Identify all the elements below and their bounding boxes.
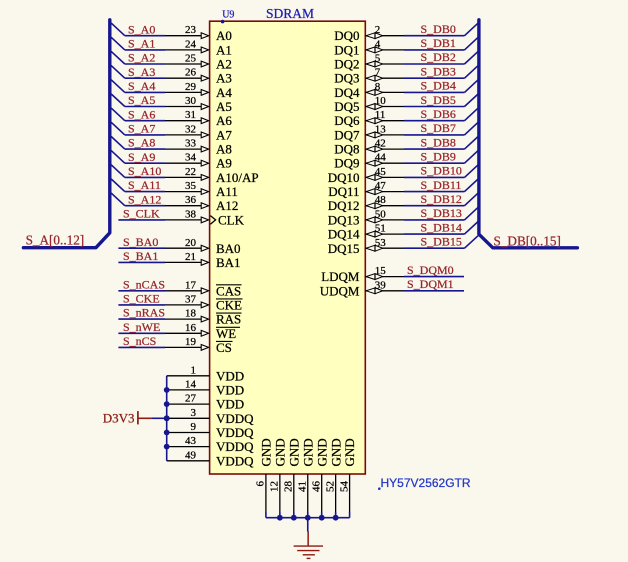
svg-text:39: 39 (375, 279, 387, 291)
svg-text:A2: A2 (216, 57, 232, 72)
svg-text:A10/AP: A10/AP (216, 170, 259, 185)
junction dot GND rail (333, 515, 339, 521)
svg-text:S_DB2: S_DB2 (421, 50, 456, 64)
chip origin dot (221, 20, 225, 24)
svg-text:13: 13 (375, 123, 387, 135)
svg-text:S_nRAS: S_nRAS (123, 306, 165, 320)
svg-text:S_DB14: S_DB14 (421, 220, 462, 234)
svg-text:32: 32 (185, 123, 196, 135)
pin A11 (35) wire + net S_A11 (111, 178, 238, 199)
svg-text:S_BA0: S_BA0 (123, 235, 158, 249)
pin VDDQ (43) wire (167, 435, 254, 454)
pin DQ8 (42) wire + net S_DB8 (334, 135, 478, 156)
svg-text:DQ2: DQ2 (334, 57, 359, 72)
svg-text:10: 10 (375, 95, 387, 107)
svg-text:VDD: VDD (216, 397, 244, 412)
junction dot on VDD rail (164, 430, 170, 436)
svg-text:S_A9: S_A9 (128, 150, 155, 164)
pin LDQM (15) wire + net S_DQM0 (321, 263, 464, 284)
svg-text:42: 42 (375, 138, 386, 150)
svg-text:U9: U9 (222, 10, 234, 21)
pin A0 (23) wire + net S_A0 (111, 22, 232, 43)
svg-text:DQ6: DQ6 (334, 113, 360, 128)
svg-text:GND: GND (342, 438, 357, 466)
svg-text:BA0: BA0 (216, 241, 241, 256)
svg-text:18: 18 (185, 308, 197, 320)
svg-text:S_CLK: S_CLK (123, 207, 160, 221)
pin DQ10 (45) wire + net S_DB10 (328, 164, 478, 185)
svg-text:S_CKE: S_CKE (123, 292, 160, 306)
svg-text:12: 12 (269, 481, 281, 492)
svg-text:S_nCAS: S_nCAS (123, 277, 165, 291)
svg-text:31: 31 (185, 109, 196, 121)
pin GND (54) vertical wire (338, 438, 357, 517)
svg-text:5: 5 (375, 53, 381, 65)
svg-text:28: 28 (283, 481, 295, 493)
svg-text:S_DB9: S_DB9 (421, 149, 456, 163)
svg-text:43: 43 (185, 435, 197, 447)
svg-text:21: 21 (185, 251, 196, 263)
svg-text:A9: A9 (216, 156, 232, 171)
svg-text:DQ0: DQ0 (334, 28, 359, 43)
svg-text:GND: GND (328, 438, 343, 466)
svg-text:S_A1: S_A1 (128, 37, 155, 51)
svg-text:DQ13: DQ13 (328, 212, 360, 227)
svg-text:29: 29 (185, 81, 197, 93)
junction dot on VDD rail (164, 401, 170, 407)
svg-text:DQ10: DQ10 (328, 170, 360, 185)
svg-text:S_DB10: S_DB10 (421, 164, 462, 178)
pin VDD (14) wire (167, 378, 244, 397)
svg-text:DQ14: DQ14 (328, 227, 360, 242)
pin GND (12) vertical wire (269, 438, 288, 517)
svg-text:GND: GND (259, 438, 274, 466)
svg-text:VDDQ: VDDQ (216, 425, 254, 440)
pin A4 (29) wire + net S_A4 (111, 79, 232, 100)
svg-text:WE: WE (216, 326, 236, 341)
ground symbol (294, 531, 323, 558)
svg-text:DQ5: DQ5 (334, 99, 359, 114)
svg-text:S_A2: S_A2 (128, 51, 155, 65)
svg-text:GND: GND (314, 438, 329, 466)
pin CS (19) wire + net S_nCS (118, 334, 232, 355)
svg-text:S_DB1: S_DB1 (421, 36, 456, 50)
svg-text:33: 33 (185, 138, 197, 150)
pin CLK (38) wire + net S_CLK (118, 207, 244, 228)
pin DQ2 (5) wire + net S_DB2 (334, 50, 478, 71)
svg-text:44: 44 (375, 152, 387, 164)
svg-text:HY57V2562GTR: HY57V2562GTR (381, 476, 471, 490)
svg-text:2: 2 (375, 24, 381, 36)
pin BA1 (21) wire + net S_BA1 (118, 249, 240, 270)
svg-text:17: 17 (185, 279, 197, 291)
svg-text:S_DB5: S_DB5 (421, 93, 456, 107)
svg-text:48: 48 (375, 194, 387, 206)
svg-text:51: 51 (375, 223, 386, 235)
svg-text:LDQM: LDQM (321, 269, 360, 284)
svg-text:1: 1 (191, 364, 197, 376)
svg-text:S_DB12: S_DB12 (421, 192, 462, 206)
svg-text:DQ8: DQ8 (334, 142, 359, 157)
svg-text:27: 27 (185, 393, 197, 405)
svg-text:3: 3 (191, 407, 197, 419)
svg-text:SDRAM: SDRAM (266, 6, 314, 21)
svg-text:37: 37 (185, 293, 197, 305)
pin WE (16) wire + net S_nWE (118, 320, 240, 341)
svg-text:CLK: CLK (218, 212, 245, 227)
svg-text:S_A10: S_A10 (128, 164, 161, 178)
pin A7 (32) wire + net S_A7 (111, 122, 232, 143)
svg-text:CAS: CAS (216, 283, 241, 298)
svg-text:A11: A11 (216, 184, 238, 199)
pin GND (6) vertical wire (255, 438, 274, 517)
svg-text:6: 6 (255, 481, 267, 487)
svg-text:DQ4: DQ4 (334, 85, 360, 100)
svg-text:54: 54 (338, 481, 350, 493)
pin DQ12 (48) wire + net S_DB12 (328, 192, 478, 213)
wire VDD/VDDQ vertical connector (166, 376, 168, 461)
svg-text:DQ7: DQ7 (334, 127, 360, 142)
svg-text:A6: A6 (216, 113, 232, 128)
junction dot GND rail (277, 515, 283, 521)
svg-text:DQ1: DQ1 (334, 42, 359, 57)
svg-text:VDDQ: VDDQ (216, 439, 254, 454)
pin A8 (33) wire + net S_A8 (111, 136, 232, 157)
svg-text:S_nWE: S_nWE (123, 320, 160, 334)
svg-text:36: 36 (185, 194, 197, 206)
svg-text:CKE: CKE (216, 297, 242, 312)
pin DQ4 (8) wire + net S_DB4 (334, 79, 478, 100)
pin DQ3 (7) wire + net S_DB3 (334, 64, 478, 85)
svg-text:VDD: VDD (216, 382, 244, 397)
pin VDD (27) wire (167, 393, 244, 412)
svg-text:S_DB13: S_DB13 (421, 206, 462, 220)
wire GND bottom rail (266, 517, 350, 519)
pin DQ7 (13) wire + net S_DB7 (334, 121, 478, 142)
pin GND (46) vertical wire (310, 438, 329, 517)
pin A6 (31) wire + net S_A6 (111, 107, 232, 128)
svg-text:14: 14 (185, 378, 197, 390)
svg-text:S_DB4: S_DB4 (421, 79, 456, 93)
svg-text:A0: A0 (216, 28, 232, 43)
svg-text:15: 15 (375, 265, 387, 277)
svg-text:VDD: VDD (216, 368, 244, 383)
svg-text:GND: GND (300, 438, 315, 466)
svg-text:S_A0: S_A0 (128, 22, 155, 36)
pin BA0 (20) wire + net S_BA0 (118, 235, 240, 256)
pin A1 (24) wire + net S_A1 (111, 37, 232, 58)
svg-text:45: 45 (375, 166, 387, 178)
svg-text:47: 47 (375, 180, 387, 192)
pin DQ6 (11) wire + net S_DB6 (334, 107, 478, 128)
svg-text:S_A11: S_A11 (128, 178, 161, 192)
svg-text:S_DB7: S_DB7 (421, 121, 456, 135)
pin GND (52) vertical wire (324, 438, 343, 517)
svg-text:50: 50 (375, 208, 387, 220)
svg-text:4: 4 (375, 38, 381, 50)
IC U9 SDRAM body (210, 21, 366, 474)
svg-text:49: 49 (185, 449, 197, 461)
svg-text:8: 8 (375, 81, 381, 93)
bus S_A[0..12] (23, 20, 109, 248)
svg-text:S_DB6: S_DB6 (421, 107, 456, 121)
pin DQ11 (47) wire + net S_DB11 (328, 178, 478, 199)
svg-text:46: 46 (310, 481, 322, 493)
svg-text:S_DB0: S_DB0 (421, 22, 456, 36)
svg-text:S_A[0..12]: S_A[0..12] (26, 233, 85, 248)
pin DQ1 (4) wire + net S_DB1 (334, 36, 478, 57)
svg-text:S_DB[0..15]: S_DB[0..15] (494, 233, 561, 248)
bus S_DB[0..15] (479, 20, 578, 248)
svg-text:25: 25 (185, 53, 197, 65)
pin A3 (26) wire + net S_A3 (111, 65, 232, 86)
svg-text:24: 24 (185, 38, 197, 50)
svg-text:S_A7: S_A7 (128, 122, 155, 136)
pin DQ0 (2) wire + net S_DB0 (334, 22, 478, 43)
svg-text:S_A12: S_A12 (128, 192, 161, 206)
svg-text:34: 34 (185, 152, 197, 164)
pin A5 (30) wire + net S_A5 (111, 93, 232, 114)
pin A2 (25) wire + net S_A2 (111, 51, 232, 72)
svg-text:S_DB3: S_DB3 (421, 64, 456, 78)
svg-text:A4: A4 (216, 85, 232, 100)
svg-text:S_BA1: S_BA1 (123, 249, 158, 263)
svg-text:23: 23 (185, 24, 197, 36)
svg-text:S_A6: S_A6 (128, 107, 155, 121)
svg-text:DQ12: DQ12 (328, 198, 360, 213)
power port D3V3 (103, 410, 152, 425)
junction dot on VDD rail (164, 444, 170, 450)
svg-text:BA1: BA1 (216, 255, 241, 270)
junction dot GND rail (319, 515, 325, 521)
svg-text:VDDQ: VDDQ (216, 453, 254, 468)
pin DQ14 (51) wire + net S_DB14 (328, 220, 478, 241)
svg-text:38: 38 (185, 208, 197, 220)
svg-text:22: 22 (185, 166, 196, 178)
junction dot GND rail (305, 515, 311, 521)
svg-text:52: 52 (324, 481, 336, 492)
svg-text:S_A8: S_A8 (128, 136, 155, 150)
svg-text:S_A5: S_A5 (128, 93, 155, 107)
pin A9 (34) wire + net S_A9 (111, 150, 232, 171)
svg-text:DQ11: DQ11 (328, 184, 359, 199)
junction dot on VDD rail (164, 415, 170, 421)
svg-text:11: 11 (375, 109, 386, 121)
svg-text:7: 7 (375, 67, 381, 79)
svg-text:DQ15: DQ15 (328, 241, 360, 256)
svg-text:S_DQM0: S_DQM0 (407, 263, 454, 277)
svg-text:41: 41 (296, 481, 308, 492)
svg-text:S_DB11: S_DB11 (421, 178, 462, 192)
svg-text:DQ9: DQ9 (334, 156, 359, 171)
svg-text:20: 20 (185, 237, 197, 249)
svg-text:S_A4: S_A4 (128, 79, 155, 93)
svg-text:S_nCS: S_nCS (123, 334, 156, 348)
svg-text:26: 26 (185, 67, 197, 79)
pin VDDQ (9) wire (167, 421, 254, 440)
svg-text:UDQM: UDQM (320, 283, 360, 298)
svg-text:S_DQM1: S_DQM1 (407, 277, 454, 291)
wire GND stem (307, 518, 309, 532)
pin GND (28) vertical wire (283, 438, 302, 517)
pin VDDQ (3) wire (167, 407, 254, 426)
svg-text:CS: CS (216, 340, 232, 355)
pin DQ13 (50) wire + net S_DB13 (328, 206, 478, 227)
svg-text:A8: A8 (216, 142, 232, 157)
svg-text:S_DB15: S_DB15 (421, 234, 462, 248)
svg-text:DQ3: DQ3 (334, 71, 359, 86)
part number anchor dot (378, 487, 381, 490)
junction dot GND rail (291, 515, 297, 521)
svg-text:30: 30 (185, 95, 197, 107)
svg-text:A1: A1 (216, 42, 232, 57)
pin RAS (18) wire + net S_nRAS (118, 306, 241, 327)
svg-text:GND: GND (286, 438, 301, 466)
svg-text:53: 53 (375, 237, 387, 249)
svg-text:S_DB8: S_DB8 (421, 135, 456, 149)
svg-text:D3V3: D3V3 (103, 410, 135, 425)
pin A10/AP (22) wire + net S_A10 (111, 164, 258, 185)
svg-text:S_A3: S_A3 (128, 65, 155, 79)
svg-text:RAS: RAS (216, 312, 241, 327)
svg-text:9: 9 (191, 421, 197, 433)
pin DQ15 (53) wire + net S_DB15 (328, 234, 478, 255)
junction dot D3V3 (164, 415, 170, 421)
pin VDD (1) wire (167, 364, 244, 383)
pin CAS (17) wire + net S_nCAS (118, 277, 241, 298)
pin DQ5 (10) wire + net S_DB5 (334, 93, 478, 114)
pin UDQM (39) wire + net S_DQM1 (320, 277, 464, 298)
svg-text:A5: A5 (216, 99, 232, 114)
junction dot on VDD rail (164, 387, 170, 393)
svg-text:35: 35 (185, 180, 197, 192)
pin CKE (37) wire + net S_CKE (118, 292, 242, 313)
svg-text:A7: A7 (216, 127, 232, 142)
pin VDDQ (49) wire (167, 449, 254, 468)
svg-text:GND: GND (272, 438, 287, 466)
wire D3V3 to VDD rail (151, 417, 166, 419)
pin A12 (36) wire + net S_A12 (111, 192, 238, 213)
svg-text:A3: A3 (216, 71, 232, 86)
svg-text:19: 19 (185, 336, 197, 348)
svg-text:VDDQ: VDDQ (216, 411, 254, 426)
svg-text:16: 16 (185, 322, 197, 334)
svg-text:A12: A12 (216, 198, 238, 213)
pin GND (41) vertical wire (296, 438, 315, 517)
pin DQ9 (44) wire + net S_DB9 (334, 149, 478, 170)
